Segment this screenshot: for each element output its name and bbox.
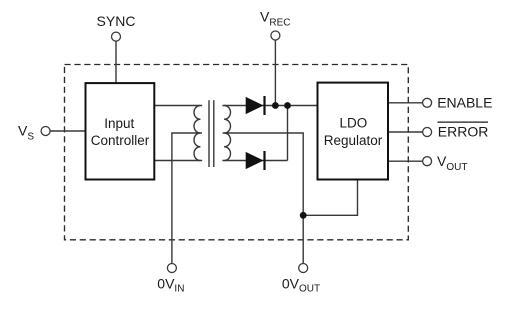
svg-text:LDO: LDO (340, 115, 368, 130)
svg-text:SYNC: SYNC (97, 13, 136, 29)
svg-text:ERROR: ERROR (438, 124, 489, 140)
svg-text:Controller: Controller (91, 133, 150, 148)
svg-text:Regulator: Regulator (324, 133, 383, 148)
svg-text:Input: Input (104, 116, 134, 131)
svg-text:ENABLE: ENABLE (437, 95, 492, 111)
